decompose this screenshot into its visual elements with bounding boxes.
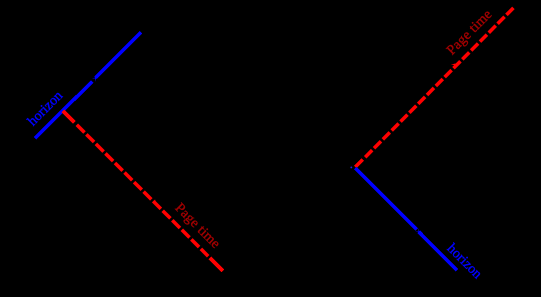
wire: left horizon line lower segment (blue) [35,81,92,138]
arrowhead on right Page-time line (points up-right) [451,63,456,68]
wire: right Page-time line first solid dash (red) [355,160,362,167]
node: label Page time (right) [444,7,495,58]
wire: left Page-time line dashed part (red) [77,125,208,256]
wire: left Page-time line final dash (red) [210,258,223,271]
arrowhead on left horizon line (points up-right) [92,77,97,82]
arrowhead on left Page-time line (points down-right) [152,199,157,204]
node: label horizon (left) [25,88,66,129]
wire: right horizon line upper segment (blue) [355,168,417,230]
node: label Page time (left) [172,201,223,252]
wire: right Page-time line dashed part (red) [365,8,513,157]
arrowhead on right horizon line (points down-right) [415,228,420,233]
wire: left horizon line upper segment (blue) [96,32,142,78]
node: label horizon (right) [444,241,485,282]
wire: left Page-time line first solid dash (red) [63,111,75,123]
node: evaporation endpoint dot (blue) [350,166,352,168]
wire: right horizon line lower segment (blue) [419,232,457,270]
